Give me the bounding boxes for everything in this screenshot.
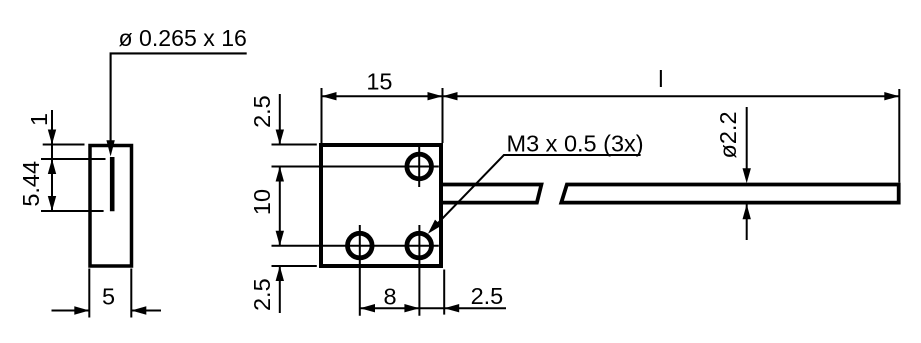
extension lines width 5 xyxy=(89,269,131,318)
dimension line l xyxy=(443,92,900,100)
dim text 5 xyxy=(102,283,115,309)
label M3 x 0.5 (3x) xyxy=(507,131,644,157)
dimension line left column 2.5 top xyxy=(276,94,284,145)
svg-text:8: 8 xyxy=(383,284,396,310)
svg-text:l: l xyxy=(658,66,663,92)
mounting hole top (M3) xyxy=(407,154,432,179)
dimension line 15 xyxy=(322,92,443,100)
svg-text:ø 0.265 x 16: ø 0.265 x 16 xyxy=(119,25,247,51)
dim text 2.5 top xyxy=(249,95,275,128)
mounting hole bottom-right (M3) xyxy=(407,233,432,258)
dimension line 5 xyxy=(52,306,162,314)
fiber cable segment 1 xyxy=(441,185,541,203)
sensor block front view xyxy=(321,145,441,266)
dim text 10 xyxy=(249,189,275,215)
dim text 2.5 bottom right xyxy=(471,283,504,309)
dim text 8 xyxy=(383,284,396,310)
extension line block right edge down (2.5 bottom) xyxy=(443,270,445,315)
extension line block top-right corner up (15 / l) xyxy=(442,88,444,143)
extension line block top-left (2.5) xyxy=(272,144,317,146)
extension line block bottom-left (2.5) xyxy=(272,265,317,267)
left view body (side view rectangle) xyxy=(90,146,132,267)
fiber cable segment 2 xyxy=(561,185,898,203)
extension line fiber end (l) xyxy=(898,89,900,183)
svg-text:15: 15 xyxy=(366,68,392,94)
svg-text:2.5: 2.5 xyxy=(471,283,504,309)
svg-text:2.5: 2.5 xyxy=(249,95,275,128)
dimension line 1 / 5.44 xyxy=(48,110,56,211)
extension line slot top (dim 1 / 5.44) xyxy=(41,158,106,160)
dimension line 8 xyxy=(360,304,419,312)
dimension line left column 10 xyxy=(276,167,284,246)
leader line M3 label xyxy=(428,155,641,234)
dimension ø2.2 xyxy=(743,107,751,240)
crosshair top hole vertical xyxy=(418,146,420,187)
dim text 1 xyxy=(26,113,52,126)
dim text ø2.2 xyxy=(715,111,741,158)
dim text l xyxy=(658,66,663,92)
svg-text:2.5: 2.5 xyxy=(249,278,275,311)
crosshair + extension bottom-left hole vertical xyxy=(359,225,361,316)
label fiber hole "ø 0.265 x 16" xyxy=(119,25,247,51)
extension line slot bottom (dim 5.44) xyxy=(41,210,104,212)
dimension line 2.5 bottom right xyxy=(419,304,506,312)
svg-text:ø2.2: ø2.2 xyxy=(715,111,741,158)
svg-text:M3 x 0.5 (3x): M3 x 0.5 (3x) xyxy=(507,131,644,157)
svg-text:5: 5 xyxy=(102,283,115,309)
extension line top edge (dim 1) xyxy=(43,144,85,146)
svg-text:5.44: 5.44 xyxy=(18,161,44,207)
dim text 15 xyxy=(366,68,392,94)
extension line block top-left corner up (15) xyxy=(321,88,323,143)
svg-text:1: 1 xyxy=(26,113,52,126)
crosshair + extension bottom-right hole vertical xyxy=(418,225,420,316)
svg-text:10: 10 xyxy=(249,189,275,215)
fiber bore slot xyxy=(110,157,115,211)
mounting hole bottom-left (M3) xyxy=(348,233,373,258)
leader line for fiber hole label xyxy=(106,53,246,156)
dim text 2.5 bottom xyxy=(249,278,275,311)
dimension line left column 2.5 bottom xyxy=(276,266,284,313)
dim text 5.44 xyxy=(18,161,44,207)
crosshair bottom holes horizontal xyxy=(272,245,439,247)
extension + crosshair top hole horizontal xyxy=(272,166,439,168)
